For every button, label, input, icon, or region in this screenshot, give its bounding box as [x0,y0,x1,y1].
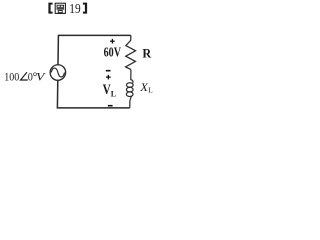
AC source circle [50,65,66,81]
wire: top horizontal [58,34,130,36]
circuit wires group (slight scan skew) [50,35,136,108]
title left lenticular bracket 【 [48,3,52,14]
svg-text:R: R [142,47,151,61]
svg-text:60V: 60V [104,44,121,59]
plus sign (top of VL) [106,75,111,80]
plus sign (top, +60V) [110,39,115,44]
svg-text:L: L [148,86,153,95]
minus sign (bottom of VL) [108,105,113,107]
inductor XL coil [131,70,133,83]
wire: bottom horizontal [57,107,130,109]
resistor R zigzag [126,35,136,69]
svg-text:L: L [111,90,116,99]
svg-text:100: 100 [4,69,19,83]
title right lenticular bracket 】 [83,3,87,14]
svg-text:V: V [36,70,46,84]
AC source sine wave [51,68,64,77]
title CJK glyph 圖 [55,3,65,13]
wire: left vertical lower [56,80,58,108]
wire: left vertical upper [57,35,59,65]
svg-text:19: 19 [69,1,81,16]
angle symbol ∠ [21,72,28,80]
minus sign (bottom of 60V) [106,70,111,72]
